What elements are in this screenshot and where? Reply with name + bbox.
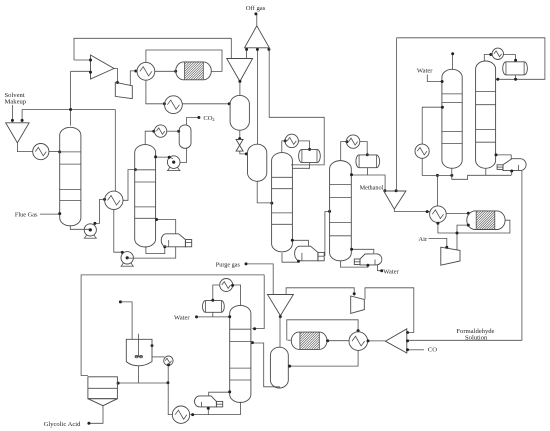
- wire lean solvent header: [22, 109, 115, 111]
- wire K3 discharge to mixer M5: [365, 288, 414, 333]
- wire E5 bottom to E6: [146, 80, 165, 104]
- wire D3 bottoms to column C3: [257, 182, 271, 203]
- wire into K1 upper: [74, 59, 91, 61]
- mixer M2 recycle (inverted triangle): [227, 59, 253, 82]
- wire C3 vapor to reboiler E8: [292, 240, 308, 246]
- vent collector V1 (up triangle): [245, 26, 270, 48]
- wire purge gas line: [246, 264, 273, 294]
- wire E17 bottoms connect: [207, 407, 209, 415]
- wire E10 water out: [378, 265, 382, 271]
- kettle-reboiler E17: [195, 396, 217, 407]
- svg-text:Flue Gas: Flue Gas: [15, 211, 38, 218]
- wire glycolic acid product: [89, 406, 103, 423]
- reactor R3 carbonylation: [291, 332, 327, 349]
- heat-exchanger E19 CSTR cooler: [164, 356, 173, 365]
- wire solvent makeup arrow: [11, 105, 13, 122]
- wire C7 water feed: [197, 316, 230, 318]
- kettle-reboiler E3 stripper: [161, 234, 185, 247]
- wire CO2 product: [187, 118, 199, 125]
- column C6 formaldehyde still: [476, 61, 496, 168]
- wire D1 bottoms to pump P3: [180, 148, 186, 162]
- compressor K3 recycle (trapezoid): [351, 296, 365, 313]
- compressor K1 recycle (triangle): [91, 55, 115, 79]
- svg-text:Solution: Solution: [465, 335, 488, 342]
- wire bottoms jog: [452, 175, 511, 179]
- wire M3 to E11: [394, 209, 430, 211]
- heat-exchanger E2 lean/rich interchanger: [105, 191, 123, 209]
- heat-exchanger E4 stripper condenser: [154, 125, 166, 137]
- wire D7 to E15 bottom: [289, 351, 359, 367]
- wire C5 vent: [452, 54, 454, 70]
- vessel D7 reactor feed drum: [270, 347, 288, 388]
- drum D3 LP separator: [248, 144, 267, 181]
- compressor K2 air blower (trapezoid): [441, 247, 460, 265]
- wire E5 to reactor R1: [155, 70, 176, 72]
- svg-text:Glycolic Acid: Glycolic Acid: [44, 421, 82, 428]
- evaporator/crystallizer EV1: [88, 377, 118, 399]
- wire V1 base mid leg to drum D3: [256, 48, 258, 145]
- wire E2 bottom to pump P2: [114, 210, 122, 253]
- pump P2 lean solvent: [121, 252, 133, 264]
- wire E9 to drum D5: [360, 142, 367, 155]
- wire valve to drum D3: [240, 151, 248, 154]
- expander X1 (trapezoid): [115, 82, 132, 98]
- wire C4 overhead to E9: [341, 142, 347, 161]
- wire recycle water box: [81, 275, 264, 376]
- pump P1 rich solvent: [84, 224, 96, 236]
- wire mixer M1 outlet to E1: [17, 143, 32, 151]
- drum D8 reflux drum: [203, 301, 225, 313]
- wire absorber overhead: [70, 71, 72, 125]
- wire D6 bottoms tee: [514, 75, 516, 79]
- wire into K1 lower: [71, 70, 91, 72]
- svg-text:Off gas: Off gas: [246, 5, 266, 12]
- column C1 flue-gas absorber: [60, 127, 81, 226]
- wire C6 bottoms: [485, 168, 487, 175]
- wire junction to evaporator: [118, 382, 168, 384]
- heat-exchanger E5 feed/effluent: [137, 62, 155, 80]
- wire E11 to reactor R2: [446, 212, 468, 214]
- pump P3 reflux: [167, 156, 180, 169]
- wire R2 outlet recycle: [438, 220, 510, 233]
- wire R1 outlet loop over top: [146, 50, 222, 71]
- wire P2 discharge to reboiler E3: [128, 247, 176, 258]
- svg-text:Methanol: Methanol: [360, 184, 384, 191]
- drum D5 reflux: [356, 155, 380, 168]
- wire E17 vapor to C7: [209, 392, 230, 396]
- reactor R2 formox: [467, 211, 505, 230]
- wire C6 overhead to E13: [484, 55, 492, 62]
- drum D4 reflux: [299, 149, 321, 162]
- wire water feed to C5: [427, 75, 441, 82]
- wire D2 vapor to mixer M2: [239, 82, 241, 96]
- wire V1 base right leg: [267, 48, 270, 51]
- wire E1 to absorber C1: [49, 151, 60, 153]
- svg-text:Water: Water: [383, 269, 399, 276]
- wire C6 side to E14: [496, 155, 511, 160]
- column C4 methanol still 2: [330, 161, 352, 261]
- column C7 purge/water column: [230, 305, 251, 402]
- wire formaldehyde product line: [408, 171, 522, 340]
- heat-exchanger E11 vaporizer/interchanger: [430, 206, 447, 223]
- wire C1 bottoms to pump P1: [70, 225, 90, 229]
- wire off gas arrow: [256, 14, 258, 25]
- wire D8 top to E16: [213, 285, 220, 300]
- splitter M4 (inverted triangle): [268, 295, 294, 316]
- wire compressor K2 discharge: [457, 225, 468, 250]
- wire K1 to expander X1: [114, 69, 118, 83]
- valve LV1 letdown: [236, 140, 243, 152]
- wire R3 inlet stub: [288, 339, 292, 341]
- wire flue gas feed: [40, 213, 60, 215]
- svg-text:Purge gas: Purge gas: [216, 262, 241, 269]
- heat-exchanger E12 pumparound cooler: [415, 144, 429, 158]
- svg-text:Air: Air: [418, 236, 428, 243]
- wire air feed: [429, 238, 447, 248]
- wire X1 to E5: [130, 71, 136, 86]
- wire D4 reflux to C3: [293, 163, 310, 169]
- wire E6 to drum D2: [182, 103, 229, 105]
- wire C7 bottoms: [190, 402, 240, 415]
- wire D7 bottoms to column C7: [251, 343, 279, 388]
- wire recycle into mixer M1: [21, 110, 23, 123]
- wire E18 to junction: [168, 365, 172, 414]
- wire splitter top from compressor loop: [286, 288, 354, 296]
- wire C3 bottoms to E8: [282, 253, 299, 262]
- wire purge column feed from splitter box: [252, 275, 264, 329]
- wire P1 discharge to E2: [95, 199, 105, 223]
- heat-exchanger E13 condenser: [492, 48, 503, 59]
- wire D5 bottoms tee: [352, 168, 368, 175]
- svg-text:Water: Water: [417, 68, 433, 75]
- wire E4 to drum D1: [167, 130, 179, 132]
- mixer M1 solvent makeup (inverted triangle): [6, 123, 29, 143]
- wire formaldehyde recycle box: [396, 38, 545, 80]
- wire C5 bottoms: [451, 168, 453, 176]
- wire R3 feed loop from E15 top: [287, 320, 358, 340]
- heat-exchanger E7 condenser: [285, 134, 298, 147]
- wire M4 to vessel D7: [279, 316, 281, 347]
- drum D6 reflux: [503, 62, 528, 75]
- wire off-gas leg to C3 feed: [269, 48, 324, 165]
- heat-exchanger E6 product cooler: [165, 96, 183, 114]
- wire CSTR bottom outlet: [138, 366, 140, 383]
- reactor R4 CSTR: [126, 339, 152, 366]
- column C3 methanol still 1: [272, 153, 293, 252]
- wire E14 bottoms to header: [511, 171, 513, 176]
- wire methanol vapor line from formaldehyde box: [395, 38, 397, 191]
- heat-exchanger E18 product cooler: [172, 406, 189, 423]
- wire D2 bottoms to valve: [239, 130, 241, 139]
- wire P3 to stripper reflux: [156, 157, 173, 158]
- column C2 CO2 stripper: [135, 145, 156, 247]
- wire E11 top to bottoms header: [436, 176, 438, 206]
- wire E7 to drum D4: [298, 141, 309, 149]
- wire E15 to mixer M5 apex: [368, 340, 386, 342]
- svg-text:CO: CO: [428, 346, 437, 353]
- heat-exchanger E15 reactor interchanger: [349, 332, 368, 351]
- wire V1 base left leg: [246, 48, 248, 58]
- wire CSTR to E19: [152, 356, 164, 358]
- column C5 formaldehyde absorber: [442, 69, 462, 168]
- heat-exchanger E9 condenser: [346, 135, 359, 148]
- wire E3 vapor return to C2: [157, 220, 176, 234]
- heat-exchanger E16 condenser: [220, 279, 233, 292]
- wire C3 overhead to E7: [282, 141, 285, 153]
- kettle-reboiler E14 (mirrored): [503, 159, 526, 171]
- heat-exchanger E1 solvent cooler: [33, 144, 49, 160]
- wire C4 bottoms to E10: [340, 261, 368, 267]
- wire E16 to C7 top: [233, 285, 241, 306]
- wire D8 bottoms stub: [212, 312, 214, 317]
- svg-text:Makeup: Makeup: [5, 98, 27, 105]
- wire R3 outlet to E15: [327, 340, 349, 342]
- mixer M3 methanol+recycle (inverted triangle): [384, 191, 406, 209]
- wire C4 vapor to reboiler E10: [351, 249, 374, 254]
- wire E2 to stripper C2 feed: [123, 170, 135, 201]
- wire recycle long top line: [74, 38, 231, 60]
- wire E12 to C5: [422, 107, 442, 144]
- wire E13 to drum D6: [504, 55, 516, 61]
- kettle-reboiler E10 (mirrored): [360, 254, 382, 265]
- wire E8 vapor to column C4: [325, 212, 329, 257]
- kettle-reboiler E8: [295, 246, 318, 261]
- wire methanol product to mixer M3: [367, 175, 385, 191]
- drum D2 HP separator: [230, 95, 249, 130]
- reactor R1 methanol converter: [176, 62, 212, 80]
- wire M5 mid entry: [406, 339, 409, 342]
- wire CO feed: [408, 349, 424, 351]
- wire C2 bottoms to reboiler E3: [146, 246, 165, 253]
- wire C2 overhead to E4: [145, 131, 154, 145]
- wire CSTR feed: [121, 302, 132, 339]
- wire bottoms header: [422, 158, 452, 175]
- wire lean header down to E2: [114, 110, 116, 192]
- mixer M5 CO/formaldehyde (left triangle): [385, 329, 406, 353]
- drum D1 CO2 knockout: [179, 125, 191, 148]
- svg-text:Water: Water: [174, 314, 190, 321]
